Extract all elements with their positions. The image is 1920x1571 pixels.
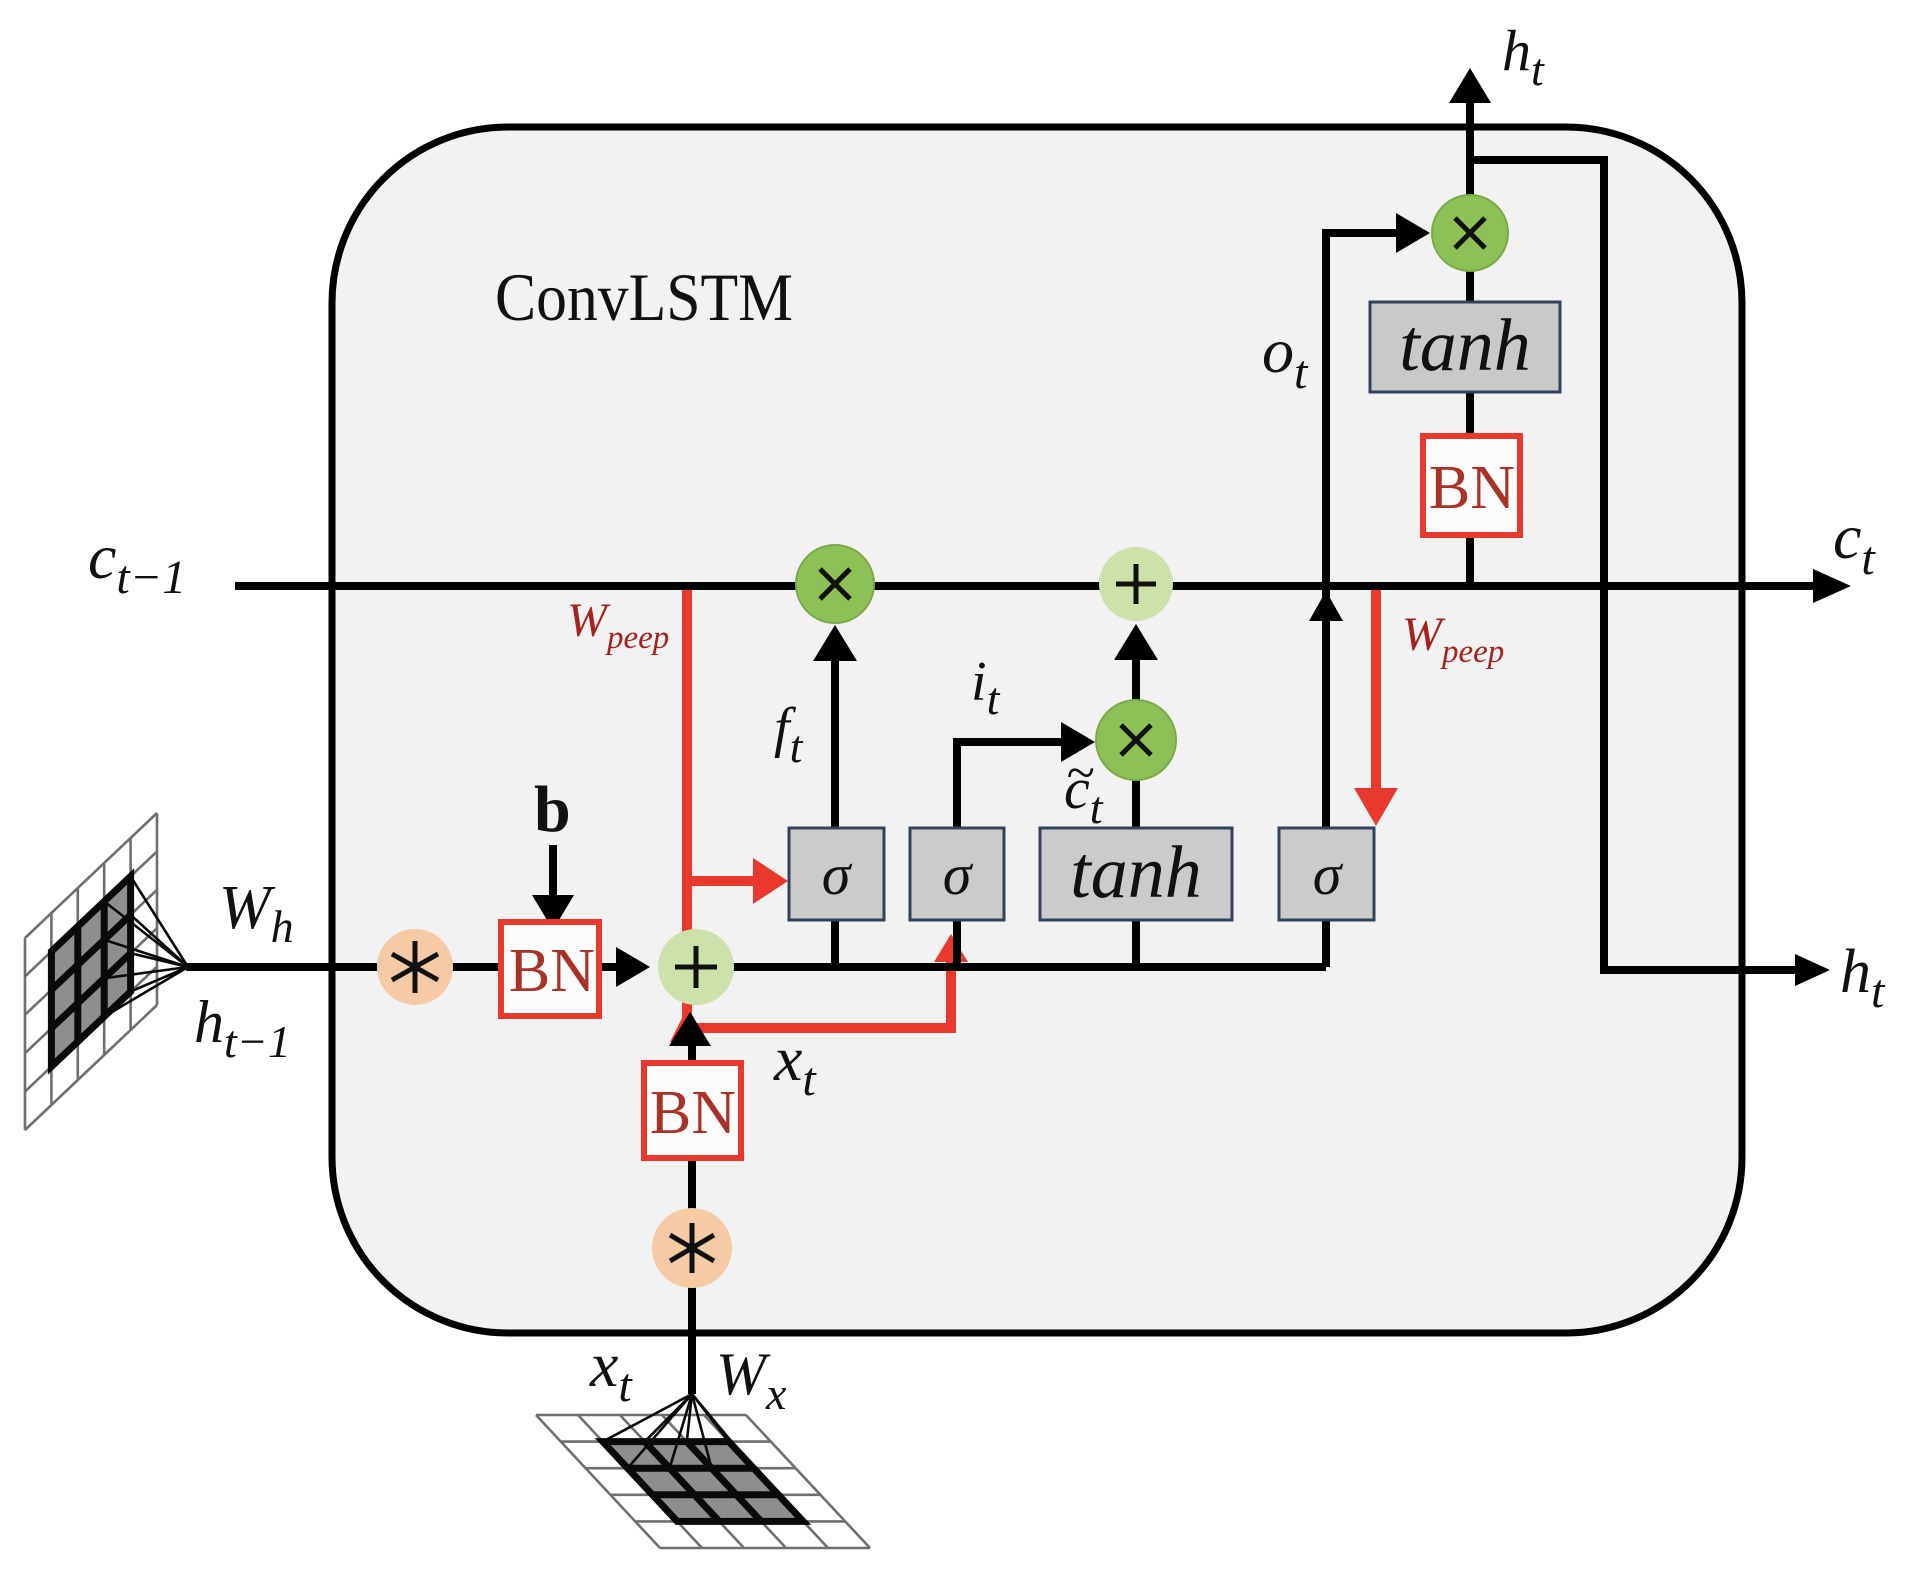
op add circle (cell update) xyxy=(1099,547,1173,621)
wire stub into sigma 3 xyxy=(1322,920,1330,967)
wire stub into sigma 2 xyxy=(953,920,961,967)
wire cell state line c_t-1 to c_t xyxy=(235,582,1818,590)
box BN top right xyxy=(1423,436,1520,535)
wire tanh up into candidate multiply xyxy=(1132,776,1140,828)
gate box sigma 3 (output) xyxy=(1279,828,1374,920)
wire W_peep red branch into forget gate xyxy=(687,876,757,886)
wire c_t branch up through BN and tanh to output multiply xyxy=(1466,200,1474,586)
wire red stub into adder xyxy=(670,1006,706,1042)
wire h_t recurrent branch right and down xyxy=(1470,160,1800,970)
op add circle (gate preactivation sum) xyxy=(658,929,734,1005)
gate box sigma 1 (forget) xyxy=(789,828,884,920)
wire candidate multiply up into adder xyxy=(1132,650,1140,704)
svg-text:ConvLSTM: ConvLSTM xyxy=(495,259,793,335)
box BN left (on W_h path) xyxy=(501,922,599,1016)
wire x_t from BN into adder xyxy=(688,1040,696,1063)
wire b bias arrow into BN xyxy=(549,845,557,895)
wire gate feed line from adder to gates xyxy=(696,963,1326,971)
svg-text:BN: BN xyxy=(1429,454,1515,522)
op conv circle on W_h path xyxy=(377,929,453,1005)
fan from h_t-1 grid to conv xyxy=(104,876,188,1016)
op multiply circle candidate (i_t x c~_t) xyxy=(1096,700,1176,780)
wire h_t up out of cell xyxy=(1466,100,1474,200)
svg-text:tanh: tanh xyxy=(1399,305,1531,387)
wire forget gate column f_t xyxy=(831,650,839,828)
op conv circle on x_t path xyxy=(652,1208,732,1288)
ConvLSTM cell body xyxy=(332,127,1742,1333)
svg-text:~: ~ xyxy=(1066,745,1094,802)
wire W_peep left red vertical xyxy=(682,584,692,1031)
svg-text:BN: BN xyxy=(509,937,595,1005)
wire output gate o_t up and into output multiply xyxy=(1326,233,1400,828)
op multiply circle forget (on cell line) xyxy=(796,545,874,623)
svg-text:σ: σ xyxy=(822,842,853,907)
svg-text:σ: σ xyxy=(1313,842,1344,907)
wire stub into sigma 1 xyxy=(831,920,839,967)
svg-text:BN: BN xyxy=(650,1079,736,1147)
gate box sigma 2 (input) xyxy=(910,828,1004,920)
wire W_h input line into adder xyxy=(186,963,630,971)
svg-text:b: b xyxy=(534,773,571,846)
feature map grid x_t (bottom) xyxy=(536,1394,870,1548)
svg-text:tanh: tanh xyxy=(1070,832,1202,914)
box tanh top (cell output squash) xyxy=(1370,302,1560,392)
wire W_peep red bottom run to input gate xyxy=(687,944,951,1028)
wire arrow into cell line from o_t column xyxy=(1309,591,1343,621)
wire W_peep right red arrow down to output gate xyxy=(1371,588,1381,792)
gate box tanh (candidate) xyxy=(1040,828,1232,920)
box BN bottom (on x_t path) xyxy=(644,1063,741,1158)
wire input gate up and over to candidate multiply xyxy=(957,742,1062,828)
op multiply circle output (o_t x tanh) xyxy=(1432,195,1508,271)
fan from x_t grid to conv xyxy=(603,1394,754,1468)
wire x_t column from grid through conv and BN xyxy=(688,1158,696,1394)
wire stub into tanh gate xyxy=(1132,920,1140,967)
svg-text:σ: σ xyxy=(943,842,974,907)
feature map grid h_t-1 (left) xyxy=(25,813,188,1130)
